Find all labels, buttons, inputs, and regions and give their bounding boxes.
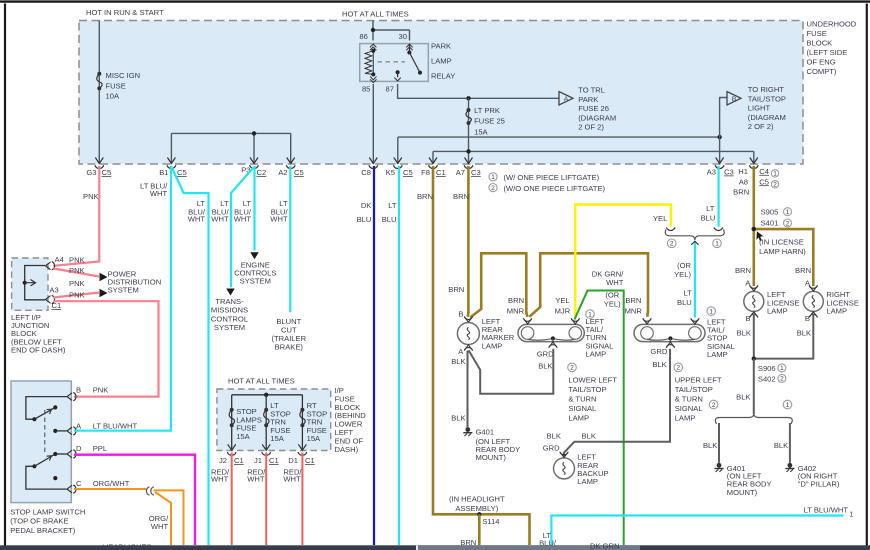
- switch open contact dot: [53, 476, 57, 480]
- svg-text:B: B: [76, 386, 81, 395]
- wire PNK junction block A3 to power distribution (line 3): [54, 293, 100, 298]
- svg-text:B1: B1: [159, 168, 168, 177]
- svg-text:& TURN: & TURN: [568, 395, 596, 404]
- svg-text:LT: LT: [706, 204, 715, 213]
- svg-text:HOT AT ALL TIMES: HOT AT ALL TIMES: [228, 377, 295, 386]
- svg-text:WHT: WHT: [211, 214, 229, 223]
- svg-text:S905: S905: [761, 207, 779, 216]
- svg-text:PARK: PARK: [431, 42, 451, 51]
- fuse RT STOP TRN FUSE 15A: [301, 395, 303, 451]
- svg-text:D1: D1: [288, 456, 298, 465]
- wire HOT AT ALL TIMES feed to relay terminals 86 and 30: [373, 21, 410, 41]
- svg-text:PNK: PNK: [69, 279, 85, 288]
- svg-text:TO RIGHT: TO RIGHT: [748, 85, 785, 94]
- hook end of YEL option wire: [666, 228, 675, 231]
- lamp: LEFT REAR BACKUP LAMP: [554, 458, 575, 479]
- svg-text:A3: A3: [49, 285, 58, 294]
- svg-text:1: 1: [491, 174, 495, 181]
- connector pin at x=397.8: [394, 158, 402, 164]
- svg-text:WHT: WHT: [188, 214, 206, 223]
- svg-text:15A: 15A: [474, 128, 488, 137]
- svg-text:C1: C1: [234, 456, 244, 465]
- svg-text:HOT AT ALL TIMES: HOT AT ALL TIMES: [342, 10, 409, 19]
- wire LT BLU/WHT branch B1 to bottom: [172, 168, 209, 546]
- svg-text:LT BLU/WHT: LT BLU/WHT: [804, 506, 849, 515]
- svg-text:FUSE 25: FUSE 25: [474, 117, 505, 126]
- svg-text:BLK: BLK: [451, 357, 465, 366]
- svg-text:FUSE: FUSE: [807, 29, 827, 38]
- wire RED/WHT J2 to bottom: [231, 453, 233, 546]
- svg-text:J1: J1: [254, 456, 262, 465]
- svg-text:PARK: PARK: [578, 95, 598, 104]
- svg-text:WHT: WHT: [270, 214, 288, 223]
- svg-text:(DIAGRAM: (DIAGRAM: [748, 113, 786, 122]
- svg-text:2: 2: [780, 376, 784, 383]
- connector pin at x=171.4: [167, 158, 175, 164]
- svg-text:BLU: BLU: [677, 298, 692, 307]
- svg-text:PNK: PNK: [69, 291, 85, 300]
- wire RED/WHT D1 to bottom: [301, 453, 303, 546]
- svg-text:BLK: BLK: [547, 431, 561, 440]
- fuse LT PRK FUSE 25 15A: [468, 98, 470, 163]
- note 2 for upper left tail/stop lamp: [674, 363, 683, 372]
- svg-text:BLK: BLK: [703, 441, 717, 450]
- ground G401 (rear): [465, 427, 470, 432]
- wire BRN splice to left license lamp A: [752, 229, 755, 286]
- wire ORG/WHT switch C to inline connector: [74, 488, 146, 490]
- fuse LT STOP TRN FUSE 15A: [265, 395, 267, 451]
- svg-text:COMPT): COMPT): [807, 67, 837, 76]
- svg-text:C1: C1: [269, 456, 279, 465]
- wire LT BLU from A3 to option hook 1: [717, 166, 719, 227]
- svg-text:D: D: [76, 444, 82, 453]
- svg-text:BLOCK: BLOCK: [807, 38, 833, 47]
- svg-text:PNK: PNK: [69, 266, 85, 275]
- svg-text:BLK: BLK: [451, 413, 465, 422]
- note 1 for left tail/stop lamp: [707, 307, 716, 316]
- svg-text:C3: C3: [471, 168, 481, 177]
- svg-text:C5: C5: [177, 168, 187, 177]
- wire BLK right license B to splice S906: [754, 313, 814, 358]
- off-page connector B (TO RIGHT TAIL/STOP LIGHT): [720, 98, 727, 164]
- svg-text:10A: 10A: [106, 91, 120, 100]
- svg-text:LOWER LEFT: LOWER LEFT: [568, 376, 617, 385]
- svg-text:LAMP: LAMP: [482, 341, 503, 350]
- svg-text:BLU: BLU: [701, 214, 716, 223]
- svg-text:HOT IN RUN & START: HOT IN RUN & START: [86, 8, 164, 17]
- svg-text:C4: C4: [759, 167, 769, 176]
- wire PNK junction block C1 to stop lamp switch B: [54, 301, 159, 396]
- svg-text:15A: 15A: [270, 434, 284, 443]
- option 2 marker (ground): [709, 400, 718, 409]
- svg-text:(DIAGRAM: (DIAGRAM: [578, 113, 616, 122]
- svg-text:SIGNAL: SIGNAL: [568, 404, 596, 413]
- svg-text:85: 85: [362, 85, 370, 94]
- option 1 marker: [713, 239, 722, 248]
- svg-text:MNR: MNR: [507, 307, 525, 316]
- connector pin at x=433: [429, 158, 437, 164]
- svg-text:BRN: BRN: [508, 296, 524, 305]
- wire bus to B1 P3 A2 inside fuse block: [171, 133, 290, 163]
- I/P fuse block bus: [232, 394, 303, 396]
- svg-text:PNK: PNK: [69, 256, 85, 265]
- relay U: PARK LAMP RELAY: [359, 32, 428, 94]
- lamp: RIGHT LICENSE LAMP: [803, 291, 823, 311]
- wire BLK S906 to ground option brace: [753, 359, 755, 414]
- svg-text:LT: LT: [388, 201, 397, 210]
- lamp: LEFT TAIL/STOP SIGNAL LAMP (dual filament): [634, 324, 705, 341]
- svg-text:2: 2: [786, 220, 790, 227]
- wire BLK marker lamp A to G401: [467, 351, 469, 428]
- arrow to TRANSMISSIONS CONTROL SYSTEM: [226, 289, 235, 296]
- svg-text:S906: S906: [758, 364, 776, 373]
- svg-text:A4: A4: [55, 255, 64, 264]
- ground G401 (on left rear body mount): [717, 463, 722, 468]
- option 2 marker: [667, 239, 676, 248]
- svg-text:A8: A8: [739, 177, 748, 186]
- svg-text:S402: S402: [758, 374, 776, 383]
- svg-text:C8: C8: [361, 168, 371, 177]
- svg-text:STOP LAMP SWITCH: STOP LAMP SWITCH: [10, 507, 85, 516]
- svg-text:87: 87: [386, 85, 394, 94]
- svg-text:UPPER LEFT: UPPER LEFT: [675, 376, 722, 385]
- wire RED/WHT J1 to bottom: [265, 453, 267, 546]
- wire fuse 25 output to F8 and H1: [433, 151, 754, 163]
- svg-text:LAMP: LAMP: [767, 307, 788, 316]
- svg-text:YEL): YEL): [674, 270, 691, 279]
- svg-text:C5: C5: [102, 168, 112, 177]
- wire BLK tail lamp GRD to marker ground node: [469, 349, 554, 394]
- wire LT BLU/WHT bottom right: [551, 516, 843, 546]
- fuse MISC IGN FUSE 10A: [97, 72, 101, 76]
- svg-text:G401: G401: [476, 428, 495, 437]
- wire ORG/WHT to bottom (right branch): [154, 490, 184, 545]
- svg-text:C5: C5: [403, 168, 413, 177]
- svg-text:DK GRN: DK GRN: [590, 542, 620, 550]
- off-page connector A (TO TRL PARK FUSE 26): [559, 92, 573, 106]
- svg-text:BLK: BLK: [538, 362, 552, 371]
- svg-text:YEL: YEL: [555, 296, 569, 305]
- svg-text:K5: K5: [386, 168, 395, 177]
- svg-text:TAIL/STOP: TAIL/STOP: [675, 385, 713, 394]
- cursor arrow pointing at splice: [756, 231, 763, 241]
- connector pin at x=373.3: [369, 158, 377, 164]
- switch pin D: [67, 450, 72, 458]
- svg-text:1: 1: [786, 209, 790, 216]
- wire BLK option 2 to G401: [718, 423, 720, 463]
- svg-text:1: 1: [773, 171, 777, 178]
- wire ORG/WHT to headlights (diagonal branch): [155, 492, 171, 545]
- wire LT BLU/WHT P3 to engine controls system: [253, 166, 255, 251]
- svg-text:MISC IGN: MISC IGN: [106, 71, 141, 80]
- svg-text:END OF DASH): END OF DASH): [11, 345, 66, 354]
- svg-text:UNDERHOOD: UNDERHOOD: [807, 19, 857, 28]
- arrow to POWER DISTRIBUTION SYSTEM (1): [100, 273, 108, 282]
- svg-text:ASSEMBLY): ASSEMBLY): [455, 504, 498, 513]
- svg-text:BLK: BLK: [797, 328, 811, 337]
- svg-text:TAIL/STOP: TAIL/STOP: [568, 385, 606, 394]
- svg-text:DASH): DASH): [335, 445, 359, 454]
- scrollbar track: [0, 545, 870, 550]
- svg-text:DK: DK: [361, 201, 372, 210]
- fuse STOP LAMPS FUSE 15A: [231, 395, 233, 451]
- svg-text:1: 1: [849, 512, 853, 519]
- svg-text:1: 1: [780, 365, 784, 372]
- svg-text:TAIL/STOP: TAIL/STOP: [748, 94, 786, 103]
- svg-text:LT BLU/WHT: LT BLU/WHT: [93, 422, 138, 431]
- svg-text:SYSTEM: SYSTEM: [108, 286, 139, 295]
- wire DK GRN/WHT tail lamp MJR to bottom: [575, 291, 624, 546]
- scrollbar thumb: [416, 545, 418, 550]
- note 2: w/o one piece liftgate: [489, 184, 497, 192]
- svg-text:GRD: GRD: [543, 444, 560, 453]
- svg-text:YEL): YEL): [604, 300, 621, 309]
- svg-text:GRD: GRD: [650, 347, 667, 356]
- svg-text:WHT: WHT: [150, 189, 168, 198]
- svg-text:30: 30: [399, 32, 407, 41]
- svg-text:BRN: BRN: [625, 296, 641, 305]
- wire BLK tail/stop GRD to backup lamp: [564, 349, 670, 456]
- junction block pin A4: [46, 262, 51, 270]
- svg-text:BLK: BLK: [737, 328, 751, 337]
- wire LT BLU/WHT P3 to transmissions control system: [231, 168, 254, 288]
- connector pin at x=290.7: [287, 158, 295, 164]
- wire BRN bracket 2 (tail lamp MNR to tail/stop MNR): [529, 253, 648, 316]
- wire BRN bracket 1 (marker B to tail lamp MNR): [470, 253, 527, 317]
- svg-text:RELAY: RELAY: [431, 71, 455, 80]
- svg-text:(W/ ONE PIECE LIFTGATE): (W/ ONE PIECE LIFTGATE): [504, 173, 600, 182]
- svg-text:86: 86: [359, 32, 367, 41]
- inline connector (( in ORG/WHT wire: [146, 487, 153, 495]
- svg-text:S401: S401: [761, 219, 779, 228]
- switch pin C: [67, 485, 72, 493]
- svg-text:BLK: BLK: [736, 393, 750, 402]
- svg-text:C5: C5: [294, 168, 304, 177]
- svg-text:B: B: [745, 314, 750, 323]
- svg-text:YEL: YEL: [653, 214, 667, 223]
- ground option split brace: [715, 414, 792, 424]
- svg-text:C1: C1: [305, 456, 315, 465]
- svg-text:C2: C2: [257, 168, 267, 177]
- wire LT BLU/WHT switch A to B1: [74, 166, 171, 431]
- wire from HOT IN RUN & START to MISC IGN fuse: [98, 21, 100, 164]
- I/P fuse block pin J2 C1: [228, 444, 236, 450]
- svg-text:FUSE: FUSE: [106, 81, 126, 90]
- svg-text:GRD: GRD: [537, 349, 554, 358]
- svg-text:(IN LICENSE: (IN LICENSE: [759, 237, 804, 246]
- svg-text:2: 2: [491, 185, 495, 192]
- connector pin at x=99.3: [95, 158, 103, 164]
- option merge brace: [665, 230, 724, 241]
- svg-text:LAMP: LAMP: [675, 413, 696, 422]
- svg-text:PNK: PNK: [83, 192, 99, 201]
- junction block pin A3/C1: [46, 296, 51, 304]
- wire LT BLU node: K5 to A3 and off-page B: [398, 137, 720, 164]
- svg-text:BRN: BRN: [453, 192, 469, 201]
- svg-text:MJR: MJR: [555, 307, 571, 316]
- wire BRN F8 down to S114: [433, 166, 530, 545]
- svg-text:BLU: BLU: [382, 215, 397, 224]
- svg-text:SYSTEM: SYSTEM: [214, 323, 245, 332]
- svg-text:2: 2: [670, 241, 674, 248]
- wire BRN A7 down to marker lamp B: [466, 166, 469, 317]
- svg-text:A2: A2: [278, 168, 287, 177]
- lamp: LEFT REAR MARKER LAMP: [457, 323, 479, 345]
- svg-text:C3: C3: [724, 168, 734, 177]
- svg-text:S114: S114: [482, 517, 499, 526]
- wire DK BLU from C8 to bottom: [373, 166, 375, 545]
- wire LT BLU (OR YEL) from brace to tail/stop lamp MJR: [694, 242, 696, 318]
- svg-text:ORG/WHT: ORG/WHT: [93, 479, 130, 488]
- svg-text:J2: J2: [219, 456, 227, 465]
- svg-text:BRN: BRN: [795, 266, 811, 275]
- svg-text:2 OF 2): 2 OF 2): [748, 122, 774, 131]
- svg-text:SIGNAL: SIGNAL: [675, 404, 703, 413]
- ground G402 (on right D pillar): [788, 463, 793, 468]
- arrow to ENGINE CONTROLS SYSTEM: [250, 252, 259, 259]
- svg-text:1: 1: [786, 402, 790, 409]
- svg-text:BLK: BLK: [652, 360, 666, 369]
- svg-text:2: 2: [570, 365, 574, 372]
- wire YEL tail lamp MJR to option hook 2: [575, 205, 671, 318]
- svg-text:BLK: BLK: [582, 431, 596, 440]
- svg-text:LAMP: LAMP: [586, 349, 607, 358]
- wire relay 87 to fuse 25 and off-page A: [398, 84, 559, 98]
- wire PNK junction block to power distribution (line 2): [54, 269, 100, 277]
- lamp: LEFT TAIL/TURN SIGNAL LAMP (dual filament): [518, 324, 584, 341]
- svg-text:B: B: [458, 309, 463, 318]
- svg-text:15A: 15A: [236, 432, 250, 441]
- junction block: LEFT I/P JUNCTION BLOCK: [12, 258, 48, 310]
- svg-text:2 OF 2): 2 OF 2): [578, 123, 604, 132]
- underhood fuse block (dashed box): [79, 21, 803, 165]
- stop lamp switch contact A: [53, 429, 57, 433]
- stop lamp switch lower contact set: [32, 464, 36, 468]
- svg-text:LAMP: LAMP: [577, 477, 598, 486]
- svg-text:B: B: [732, 96, 737, 103]
- svg-text:BRN: BRN: [735, 266, 751, 275]
- svg-text:WHT: WHT: [211, 474, 229, 483]
- svg-text:LAMP HARN): LAMP HARN): [759, 247, 806, 256]
- splice S906/S402: [752, 356, 756, 360]
- svg-text:15A: 15A: [307, 434, 321, 443]
- svg-text:OF ENG: OF ENG: [807, 57, 836, 66]
- connector pin at x=719.6: [716, 158, 724, 164]
- svg-text:1: 1: [709, 308, 713, 315]
- svg-text:2: 2: [677, 365, 681, 372]
- svg-text:C1: C1: [436, 168, 446, 177]
- svg-text:BRAKE): BRAKE): [275, 342, 304, 351]
- wire BLK left license B down to splice S906: [753, 313, 755, 358]
- svg-text:(TOP OF BRAKE: (TOP OF BRAKE: [10, 517, 68, 526]
- connector pin at x=468.5: [465, 158, 473, 164]
- svg-text:B: B: [805, 314, 810, 323]
- note 1: w/ one piece liftgate: [489, 173, 497, 181]
- svg-text:WHT: WHT: [247, 474, 265, 483]
- wire BRN S114 drop to bottom: [478, 514, 481, 545]
- option 1 marker (ground): [783, 400, 792, 409]
- svg-text:(LEFT SIDE: (LEFT SIDE: [807, 48, 848, 57]
- svg-text:TO TRL: TO TRL: [578, 86, 605, 95]
- connector pin at x=254: [250, 158, 258, 164]
- lamp: LEFT LICENSE LAMP: [744, 291, 764, 311]
- svg-text:MOUNT): MOUNT): [727, 488, 758, 497]
- svg-text:G3: G3: [86, 168, 96, 177]
- svg-text:& TURN: & TURN: [675, 395, 703, 404]
- svg-text:LIGHT: LIGHT: [748, 104, 771, 113]
- splice S905/S401: [752, 227, 756, 231]
- svg-text:(W/O ONE PIECE LIFTGATE): (W/O ONE PIECE LIFTGATE): [504, 184, 606, 193]
- svg-text:C1: C1: [52, 301, 62, 310]
- svg-text:BLU: BLU: [357, 215, 372, 224]
- svg-text:LT: LT: [683, 289, 692, 298]
- svg-text:MOUNT): MOUNT): [476, 453, 507, 462]
- svg-text:BRN: BRN: [448, 285, 464, 294]
- I/P fuse block dashed box: [217, 389, 331, 451]
- svg-text:(OR: (OR: [605, 291, 619, 300]
- svg-text:"D" PILLAR): "D" PILLAR): [798, 480, 840, 489]
- connector pin at x=753.8: [750, 158, 758, 164]
- svg-text:WHT: WHT: [606, 278, 624, 287]
- note 2 for lower left tail/stop lamp: [568, 363, 577, 372]
- svg-text:BRN: BRN: [733, 188, 749, 197]
- svg-text:F8: F8: [421, 168, 430, 177]
- svg-text:LAMP: LAMP: [568, 413, 589, 422]
- svg-text:WHT: WHT: [283, 474, 301, 483]
- svg-text:LAMP: LAMP: [707, 350, 728, 359]
- svg-text:PNK: PNK: [93, 386, 109, 395]
- svg-text:PEDAL BRACKET): PEDAL BRACKET): [10, 526, 76, 535]
- svg-text:H1: H1: [738, 167, 748, 176]
- wire BRN splice to right license lamp A: [754, 229, 814, 286]
- wire BRN H1 down to license lamp splice: [752, 166, 755, 229]
- wire PNK from G3 to junction block A4: [54, 166, 100, 266]
- svg-text:1: 1: [715, 241, 719, 248]
- svg-text:LAMP: LAMP: [431, 56, 452, 65]
- svg-text:LT PRK: LT PRK: [474, 106, 500, 115]
- svg-text:C5: C5: [759, 177, 769, 186]
- switch pin A: [67, 427, 72, 435]
- wire relay 85 to connector C8: [372, 84, 374, 164]
- svg-text:BRN: BRN: [417, 192, 433, 201]
- svg-text:LAMP: LAMP: [826, 307, 847, 316]
- splice S114: [477, 512, 481, 516]
- svg-text:WHT: WHT: [234, 214, 252, 223]
- wire LT BLU from K5 to bottom: [398, 166, 400, 545]
- svg-text:A3: A3: [707, 168, 716, 177]
- svg-text:SYSTEM: SYSTEM: [240, 276, 271, 285]
- arrow to POWER DISTRIBUTION SYSTEM (2): [100, 289, 108, 298]
- stop lamp switch upper contact set: [26, 397, 67, 420]
- svg-text:2: 2: [712, 402, 716, 409]
- svg-text:A: A: [564, 96, 569, 103]
- svg-text:BLK: BLK: [774, 441, 788, 450]
- svg-text:C: C: [76, 479, 82, 488]
- switch mechanical link (dashed): [44, 410, 46, 455]
- wire BLK option 1 to G402: [789, 423, 791, 463]
- svg-text:A7: A7: [456, 168, 465, 177]
- svg-text:(IN HEADLIGHT: (IN HEADLIGHT: [449, 494, 505, 503]
- I/P fuse block pin J1 C1: [262, 444, 270, 450]
- wire PPL switch D to bottom: [74, 455, 195, 545]
- switch pin B: [67, 393, 72, 401]
- svg-text:2: 2: [773, 182, 777, 189]
- wire LT BLU/WHT A2 blunt cut: [289, 166, 291, 312]
- svg-text:MNR: MNR: [625, 307, 643, 316]
- note 1 for left tail/turn lamp: [586, 310, 595, 319]
- hook end of LT BLU option wire: [714, 228, 723, 231]
- svg-text:WHT: WHT: [151, 522, 169, 531]
